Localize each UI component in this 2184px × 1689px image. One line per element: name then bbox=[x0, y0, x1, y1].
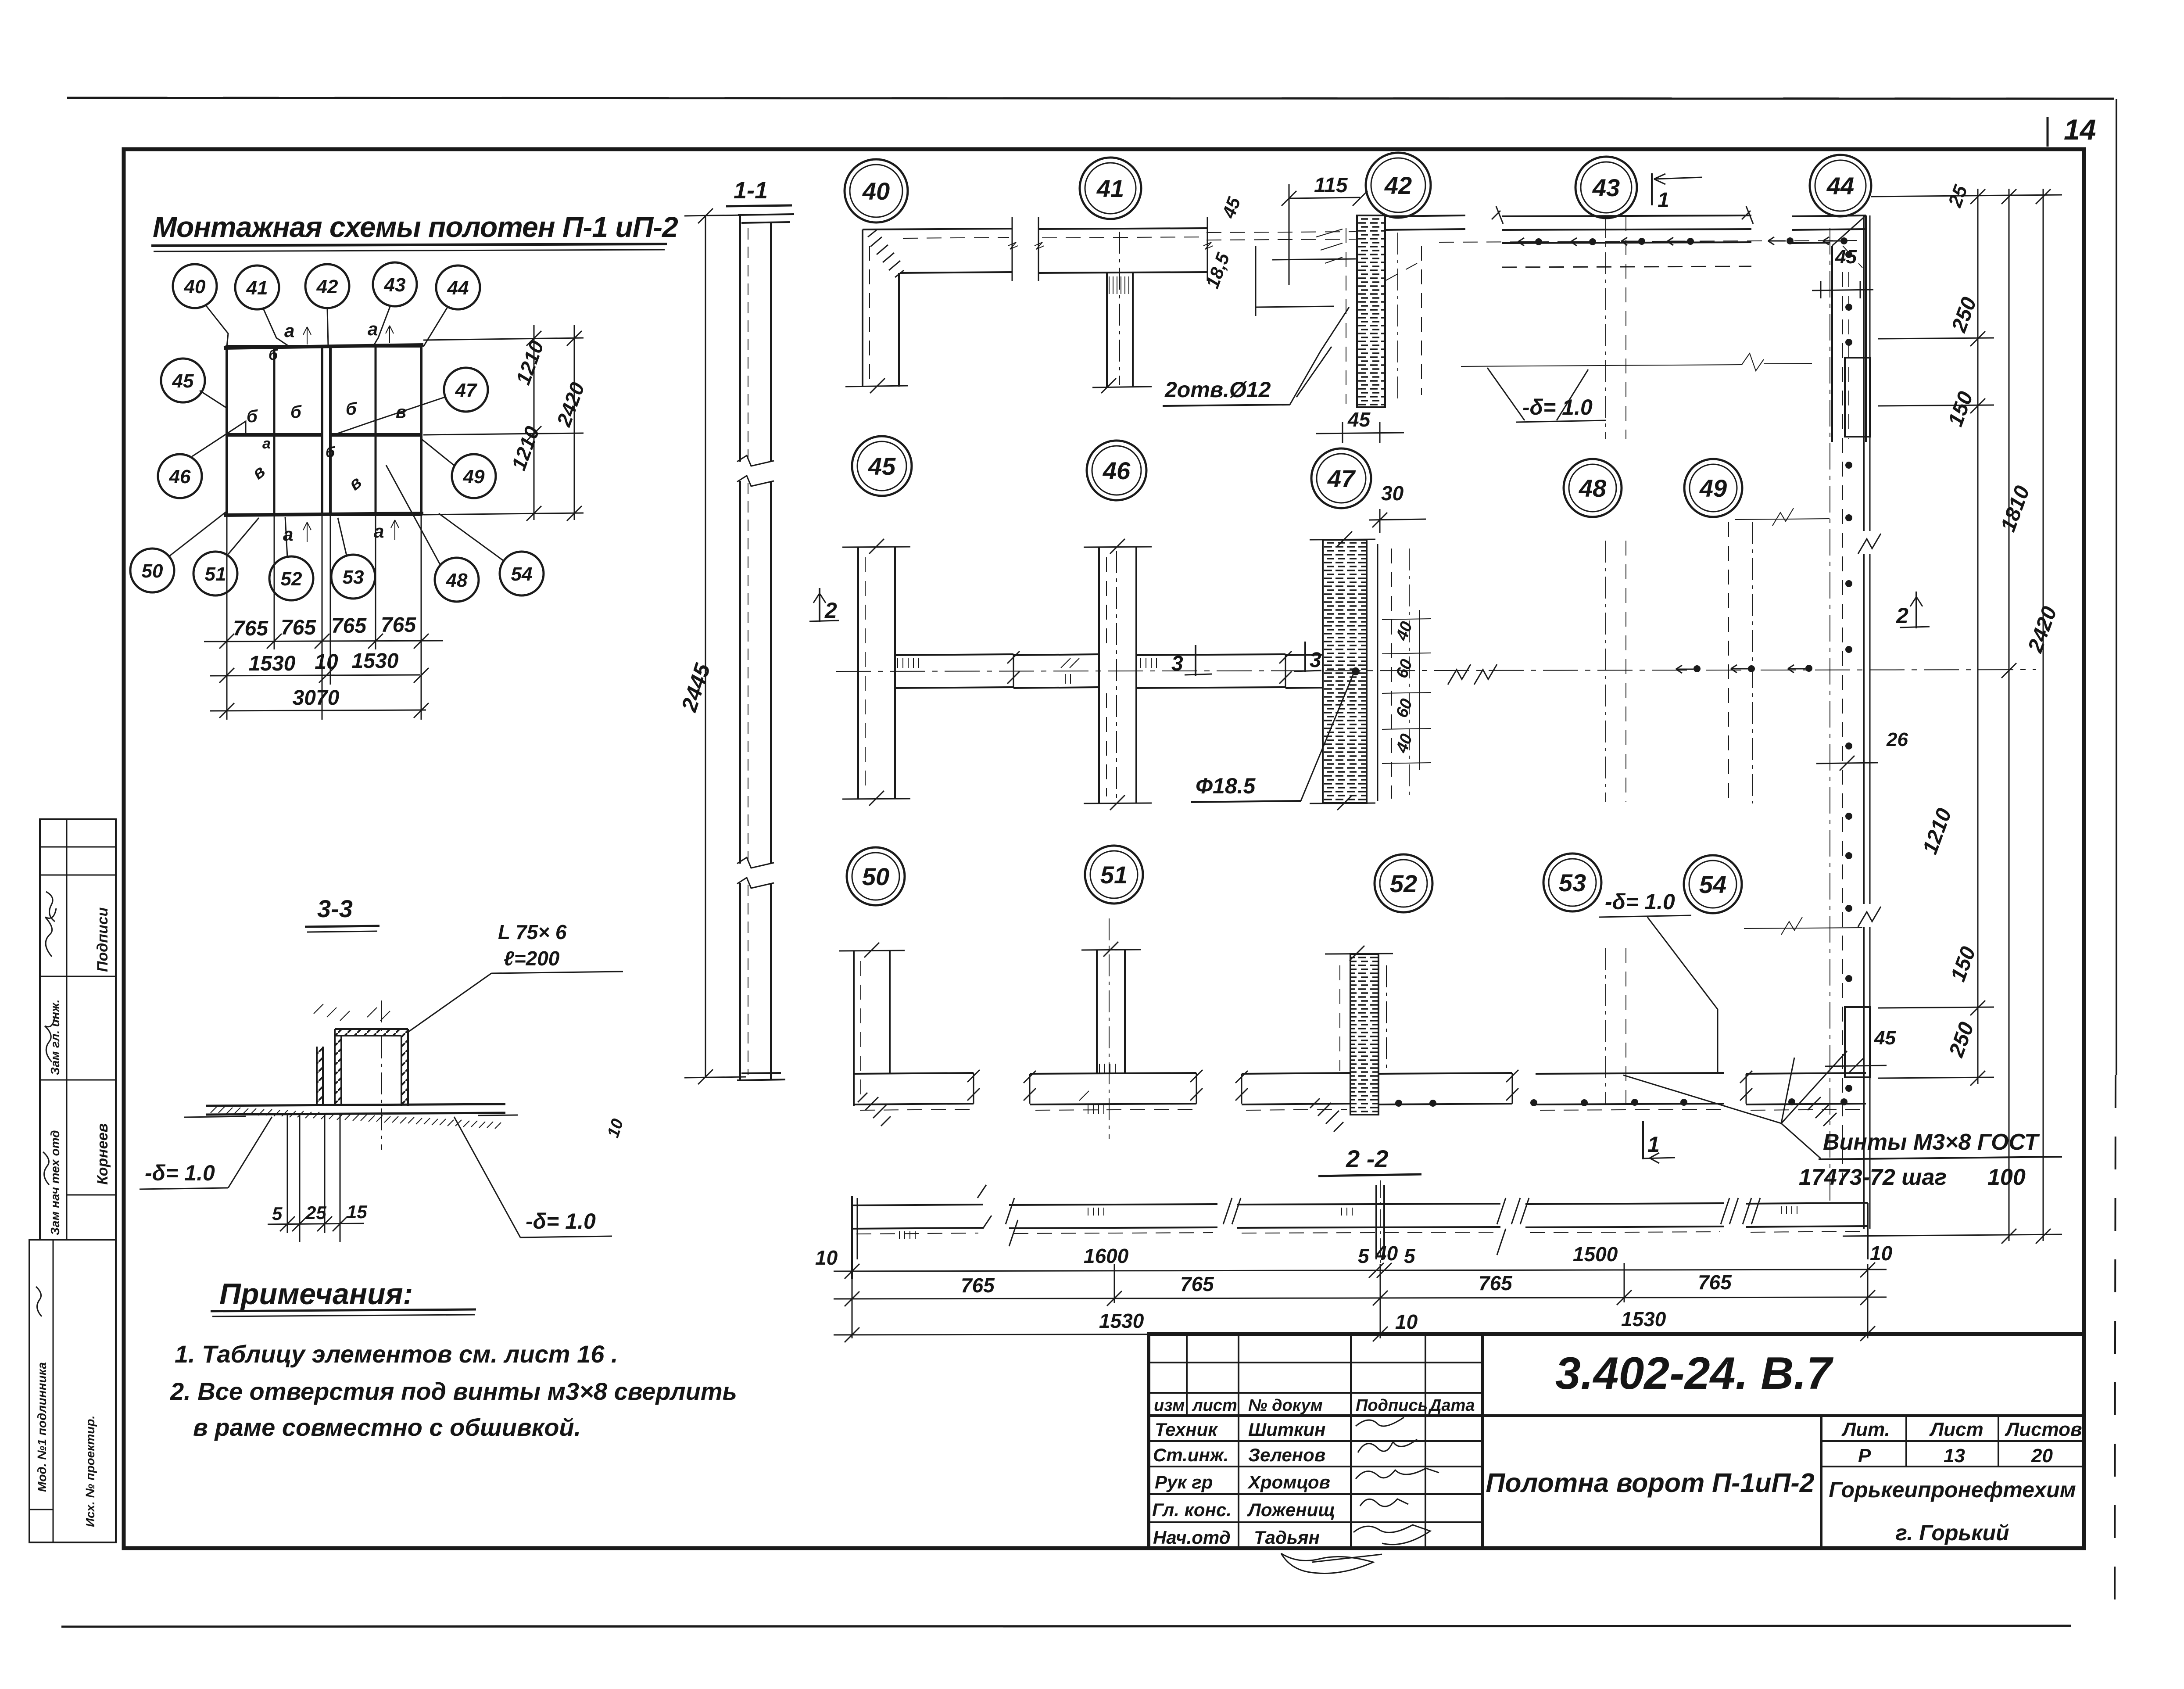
svg-text:50: 50 bbox=[862, 863, 889, 890]
svg-text:49: 49 bbox=[1699, 474, 1727, 502]
svg-text:40: 40 bbox=[184, 276, 206, 298]
svg-text:2отв.Ø12: 2отв.Ø12 bbox=[1164, 377, 1271, 402]
svg-text:2 -2: 2 -2 bbox=[1346, 1145, 1389, 1173]
svg-text:47: 47 bbox=[1327, 465, 1356, 492]
svg-text:Тадьян: Тадьян bbox=[1254, 1527, 1320, 1548]
svg-text:1600: 1600 bbox=[1084, 1244, 1129, 1267]
svg-text:Мод. №1 подлинника: Мод. №1 подлинника bbox=[35, 1362, 49, 1492]
svg-text:100: 100 bbox=[1987, 1165, 2026, 1190]
svg-text:-δ= 1.0: -δ= 1.0 bbox=[145, 1161, 215, 1185]
svg-text:25: 25 bbox=[305, 1202, 326, 1223]
svg-text:Зеленов: Зеленов bbox=[1248, 1445, 1325, 1465]
svg-text:Исх. № проектир.: Исх. № проектир. bbox=[83, 1416, 97, 1527]
svg-text:ℓ=200: ℓ=200 bbox=[504, 947, 560, 970]
svg-text:14: 14 bbox=[2064, 113, 2096, 146]
svg-text:-δ= 1.0: -δ= 1.0 bbox=[1605, 889, 1675, 914]
svg-text:40: 40 bbox=[1375, 1242, 1398, 1265]
svg-text:-δ= 1.0: -δ= 1.0 bbox=[1522, 395, 1593, 420]
svg-text:115: 115 bbox=[1314, 174, 1348, 197]
svg-text:765: 765 bbox=[281, 616, 316, 639]
svg-text:Ложенищ: Ложенищ bbox=[1247, 1499, 1335, 1520]
svg-text:Винты М3×8 ГОСТ: Винты М3×8 ГОСТ bbox=[1823, 1130, 2040, 1155]
svg-text:765: 765 bbox=[381, 613, 416, 637]
svg-text:15: 15 bbox=[347, 1201, 367, 1222]
svg-text:Лит.: Лит. bbox=[1841, 1419, 1890, 1440]
svg-text:765: 765 bbox=[331, 614, 367, 638]
svg-text:51: 51 bbox=[205, 563, 226, 585]
svg-text:47: 47 bbox=[455, 380, 478, 401]
svg-text:Рук гр: Рук гр bbox=[1155, 1472, 1213, 1492]
svg-text:43: 43 bbox=[1592, 174, 1620, 201]
svg-text:44: 44 bbox=[1826, 172, 1854, 200]
svg-text:48: 48 bbox=[1579, 474, 1607, 502]
svg-text:в: в bbox=[396, 402, 406, 422]
svg-text:41: 41 bbox=[1096, 175, 1124, 202]
svg-text:5: 5 bbox=[1358, 1244, 1370, 1267]
svg-text:Подписи: Подписи bbox=[94, 907, 111, 972]
svg-text:Подпись: Подпись bbox=[1356, 1396, 1428, 1415]
svg-text:г. Горький: г. Горький bbox=[1895, 1520, 2009, 1545]
svg-text:13: 13 bbox=[1944, 1445, 1965, 1467]
svg-text:42: 42 bbox=[316, 276, 338, 298]
svg-text:10: 10 bbox=[815, 1246, 838, 1269]
svg-text:49: 49 bbox=[463, 466, 485, 488]
svg-text:а: а bbox=[284, 320, 294, 341]
svg-text:в раме совместно с обшивкой.: в раме совместно с обшивкой. bbox=[193, 1413, 581, 1441]
svg-text:б: б bbox=[346, 399, 357, 419]
svg-text:Нач.отд: Нач.отд bbox=[1153, 1527, 1231, 1548]
svg-text:а: а bbox=[262, 435, 271, 452]
svg-text:2: 2 bbox=[824, 598, 837, 623]
svg-text:№ докум: № докум bbox=[1248, 1396, 1323, 1415]
svg-text:изм: изм bbox=[1154, 1396, 1185, 1415]
svg-text:10: 10 bbox=[1870, 1242, 1893, 1265]
svg-text:5: 5 bbox=[1404, 1244, 1416, 1267]
svg-text:45: 45 bbox=[1874, 1027, 1896, 1049]
svg-text:45: 45 bbox=[868, 452, 896, 480]
svg-text:1: 1 bbox=[1647, 1132, 1660, 1157]
svg-text:20: 20 bbox=[2031, 1445, 2053, 1467]
svg-text:10: 10 bbox=[1395, 1310, 1418, 1333]
svg-text:45: 45 bbox=[1835, 246, 1857, 268]
svg-text:Корнеев: Корнеев bbox=[94, 1123, 111, 1185]
svg-text:Листов: Листов bbox=[2005, 1419, 2082, 1440]
svg-text:2. Все отверстия под винты м3×: 2. Все отверстия под винты м3×8 сверлить bbox=[170, 1377, 737, 1405]
svg-text:41: 41 bbox=[246, 277, 268, 299]
svg-text:30: 30 bbox=[1381, 482, 1404, 505]
svg-text:а: а bbox=[283, 524, 293, 545]
svg-text:50: 50 bbox=[142, 560, 163, 582]
svg-text:1530: 1530 bbox=[352, 649, 399, 673]
svg-text:3: 3 bbox=[1171, 652, 1183, 675]
svg-text:45: 45 bbox=[1347, 408, 1371, 431]
svg-text:5: 5 bbox=[272, 1203, 283, 1224]
svg-text:Примечания:: Примечания: bbox=[219, 1277, 413, 1311]
svg-text:52: 52 bbox=[1390, 870, 1417, 897]
svg-text:1-1: 1-1 bbox=[734, 177, 768, 204]
svg-text:17473-72 шаг: 17473-72 шаг bbox=[1799, 1165, 1947, 1190]
svg-text:3070: 3070 bbox=[293, 686, 340, 710]
svg-text:44: 44 bbox=[447, 277, 469, 299]
svg-text:б: б bbox=[290, 402, 302, 422]
svg-text:1. Таблицу элементов см. лист: 1. Таблицу элементов см. лист 16 . bbox=[175, 1340, 618, 1368]
svg-text:Зам нач тех отд: Зам нач тех отд bbox=[48, 1130, 62, 1235]
svg-text:42: 42 bbox=[1384, 172, 1412, 199]
svg-text:46: 46 bbox=[169, 466, 191, 488]
svg-text:765: 765 bbox=[1698, 1271, 1732, 1294]
svg-text:L 75× 6: L 75× 6 bbox=[498, 921, 567, 943]
svg-text:1500: 1500 bbox=[1573, 1243, 1618, 1266]
svg-text:Техник: Техник bbox=[1155, 1419, 1218, 1440]
svg-text:Хромцов: Хромцов bbox=[1247, 1472, 1330, 1492]
svg-text:Монтажная схемы полотен П-1 иП: Монтажная схемы полотен П-1 иП-2 bbox=[153, 211, 678, 243]
svg-text:Р: Р bbox=[1858, 1445, 1871, 1467]
svg-text:б: б bbox=[269, 347, 278, 363]
svg-text:26: 26 bbox=[1886, 729, 1908, 750]
svg-text:53: 53 bbox=[343, 567, 364, 588]
svg-text:43: 43 bbox=[384, 274, 406, 296]
svg-text:3.402-24. В.7: 3.402-24. В.7 bbox=[1555, 1348, 1833, 1399]
svg-text:40: 40 bbox=[862, 177, 890, 205]
svg-text:б: б bbox=[326, 444, 335, 461]
svg-text:1530: 1530 bbox=[1621, 1308, 1666, 1330]
svg-text:10: 10 bbox=[315, 650, 338, 674]
svg-text:а: а bbox=[368, 319, 378, 339]
svg-text:765: 765 bbox=[1479, 1272, 1513, 1295]
svg-text:3-3: 3-3 bbox=[317, 895, 353, 922]
svg-text:1530: 1530 bbox=[1099, 1309, 1144, 1332]
svg-text:54: 54 bbox=[511, 563, 533, 585]
svg-text:лист: лист bbox=[1192, 1396, 1237, 1415]
svg-text:53: 53 bbox=[1559, 869, 1586, 896]
svg-text:Лист: Лист bbox=[1929, 1419, 1984, 1440]
svg-text:б: б bbox=[247, 407, 258, 426]
svg-text:52: 52 bbox=[281, 568, 302, 590]
svg-text:48: 48 bbox=[446, 570, 468, 591]
svg-text:51: 51 bbox=[1100, 861, 1128, 889]
svg-text:765: 765 bbox=[233, 617, 269, 640]
svg-text:765: 765 bbox=[1180, 1273, 1214, 1295]
svg-text:2: 2 bbox=[1896, 603, 1908, 628]
svg-text:Дата: Дата bbox=[1428, 1396, 1475, 1415]
svg-text:Горькеипронефтехим: Горькеипронефтехим bbox=[1829, 1477, 2076, 1502]
svg-text:3: 3 bbox=[1310, 649, 1321, 672]
svg-text:Полотна ворот П-1иП-2: Полотна ворот П-1иП-2 bbox=[1486, 1468, 1814, 1498]
svg-text:765: 765 bbox=[961, 1274, 995, 1297]
svg-text:-δ= 1.0: -δ= 1.0 bbox=[526, 1209, 596, 1234]
svg-text:Ф18.5: Ф18.5 bbox=[1196, 774, 1256, 798]
svg-text:45: 45 bbox=[172, 370, 194, 392]
svg-text:Гл. конс.: Гл. конс. bbox=[1152, 1499, 1232, 1520]
svg-text:Шиткин: Шиткин bbox=[1248, 1419, 1325, 1440]
svg-text:46: 46 bbox=[1103, 457, 1131, 484]
svg-text:54: 54 bbox=[1699, 871, 1726, 898]
svg-text:1530: 1530 bbox=[249, 652, 296, 675]
svg-text:Ст.инж.: Ст.инж. bbox=[1153, 1445, 1228, 1465]
svg-text:1: 1 bbox=[1658, 189, 1669, 212]
